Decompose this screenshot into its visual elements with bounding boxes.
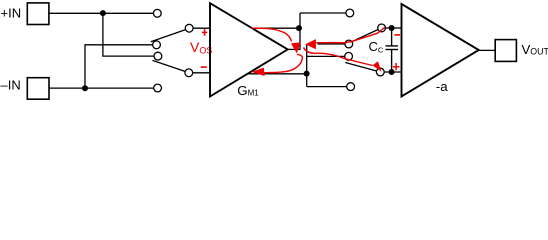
output chopper pole P2 xyxy=(376,68,384,76)
wire row4 to output chopper xyxy=(307,86,347,88)
switch arm P1-O2 xyxy=(351,30,379,43)
wire -a output xyxy=(479,49,495,51)
red offset polarity plus xyxy=(202,29,207,36)
input chopper terminal L4 xyxy=(154,84,162,92)
wire top row to output chopper xyxy=(300,12,346,14)
wire GM1 apex output xyxy=(288,48,301,50)
input chopper pole S2 xyxy=(185,69,193,77)
wire vertical bus at x306.7 xyxy=(306,45,308,87)
wire row3 to output chopper xyxy=(307,55,345,57)
output chopper terminal O3 xyxy=(345,52,353,60)
wire pole S1 to GM1 + input xyxy=(193,27,210,29)
red ripple path along row3 and arm to P2 xyxy=(304,48,373,66)
wire crossover from +IN down to row L3 xyxy=(103,13,154,56)
junction dot CC bottom xyxy=(389,69,395,75)
output chopper terminal O1 xyxy=(346,9,354,17)
red ripple arrow from upper tap down to apex node xyxy=(252,28,292,41)
switch arm S1-L2 xyxy=(151,30,186,42)
wire GM1 upper output tap xyxy=(252,27,299,29)
input chopper pole S1 xyxy=(185,24,193,32)
junction dot lower tap xyxy=(304,71,310,77)
red plus at -a lower input xyxy=(393,63,400,70)
red ripple arrow pointing left on row2 xyxy=(305,39,316,49)
capacitor CC xyxy=(386,28,399,72)
VOUT box xyxy=(495,40,516,62)
junction dot CC top xyxy=(389,25,395,31)
output chopper terminal O4 xyxy=(347,83,355,91)
svg-text:–IN: –IN xyxy=(1,78,21,93)
switch arm P2-O3 xyxy=(345,63,376,71)
wire +IN to chopper terminal L1 xyxy=(49,12,153,14)
wire GM1 lower output tap xyxy=(248,73,307,75)
wire -IN to chopper terminal L4 xyxy=(49,87,154,89)
output chopper terminal O2 xyxy=(345,40,353,48)
svg-text:+IN: +IN xyxy=(1,6,22,21)
red minus at -a upper input xyxy=(394,34,400,36)
wire crossover from -IN up to row L2 xyxy=(85,45,153,88)
wire vertical bus at x300 xyxy=(299,13,301,49)
junction dot upper tap xyxy=(296,25,302,31)
op-amp GM1 triangle xyxy=(210,3,288,96)
red ripple arrow from apex down to lower tap xyxy=(264,54,302,72)
input chopper terminal L1 xyxy=(153,9,161,17)
wire row2 stub xyxy=(318,43,345,45)
red offset polarity minus xyxy=(201,66,207,68)
red ripple path along row2 arm through pole P1 xyxy=(316,27,385,43)
wire pole P2 to -a lower input xyxy=(384,71,401,73)
junction dot on +IN wire xyxy=(100,10,106,16)
input chopper terminal L3 xyxy=(154,52,162,60)
output chopper pole P1 xyxy=(378,24,386,32)
+IN source box xyxy=(27,3,49,25)
switch arm S2-L3 xyxy=(153,60,186,71)
input chopper terminal L2 xyxy=(153,41,161,49)
-IN source box xyxy=(27,78,49,100)
wire pole S2 to GM1 - input xyxy=(193,72,210,74)
op-amp -a triangle xyxy=(402,4,479,97)
junction dot on -IN wire xyxy=(82,85,88,91)
wire pole P1 to -a upper input xyxy=(386,27,402,29)
svg-text:-a: -a xyxy=(436,79,448,94)
